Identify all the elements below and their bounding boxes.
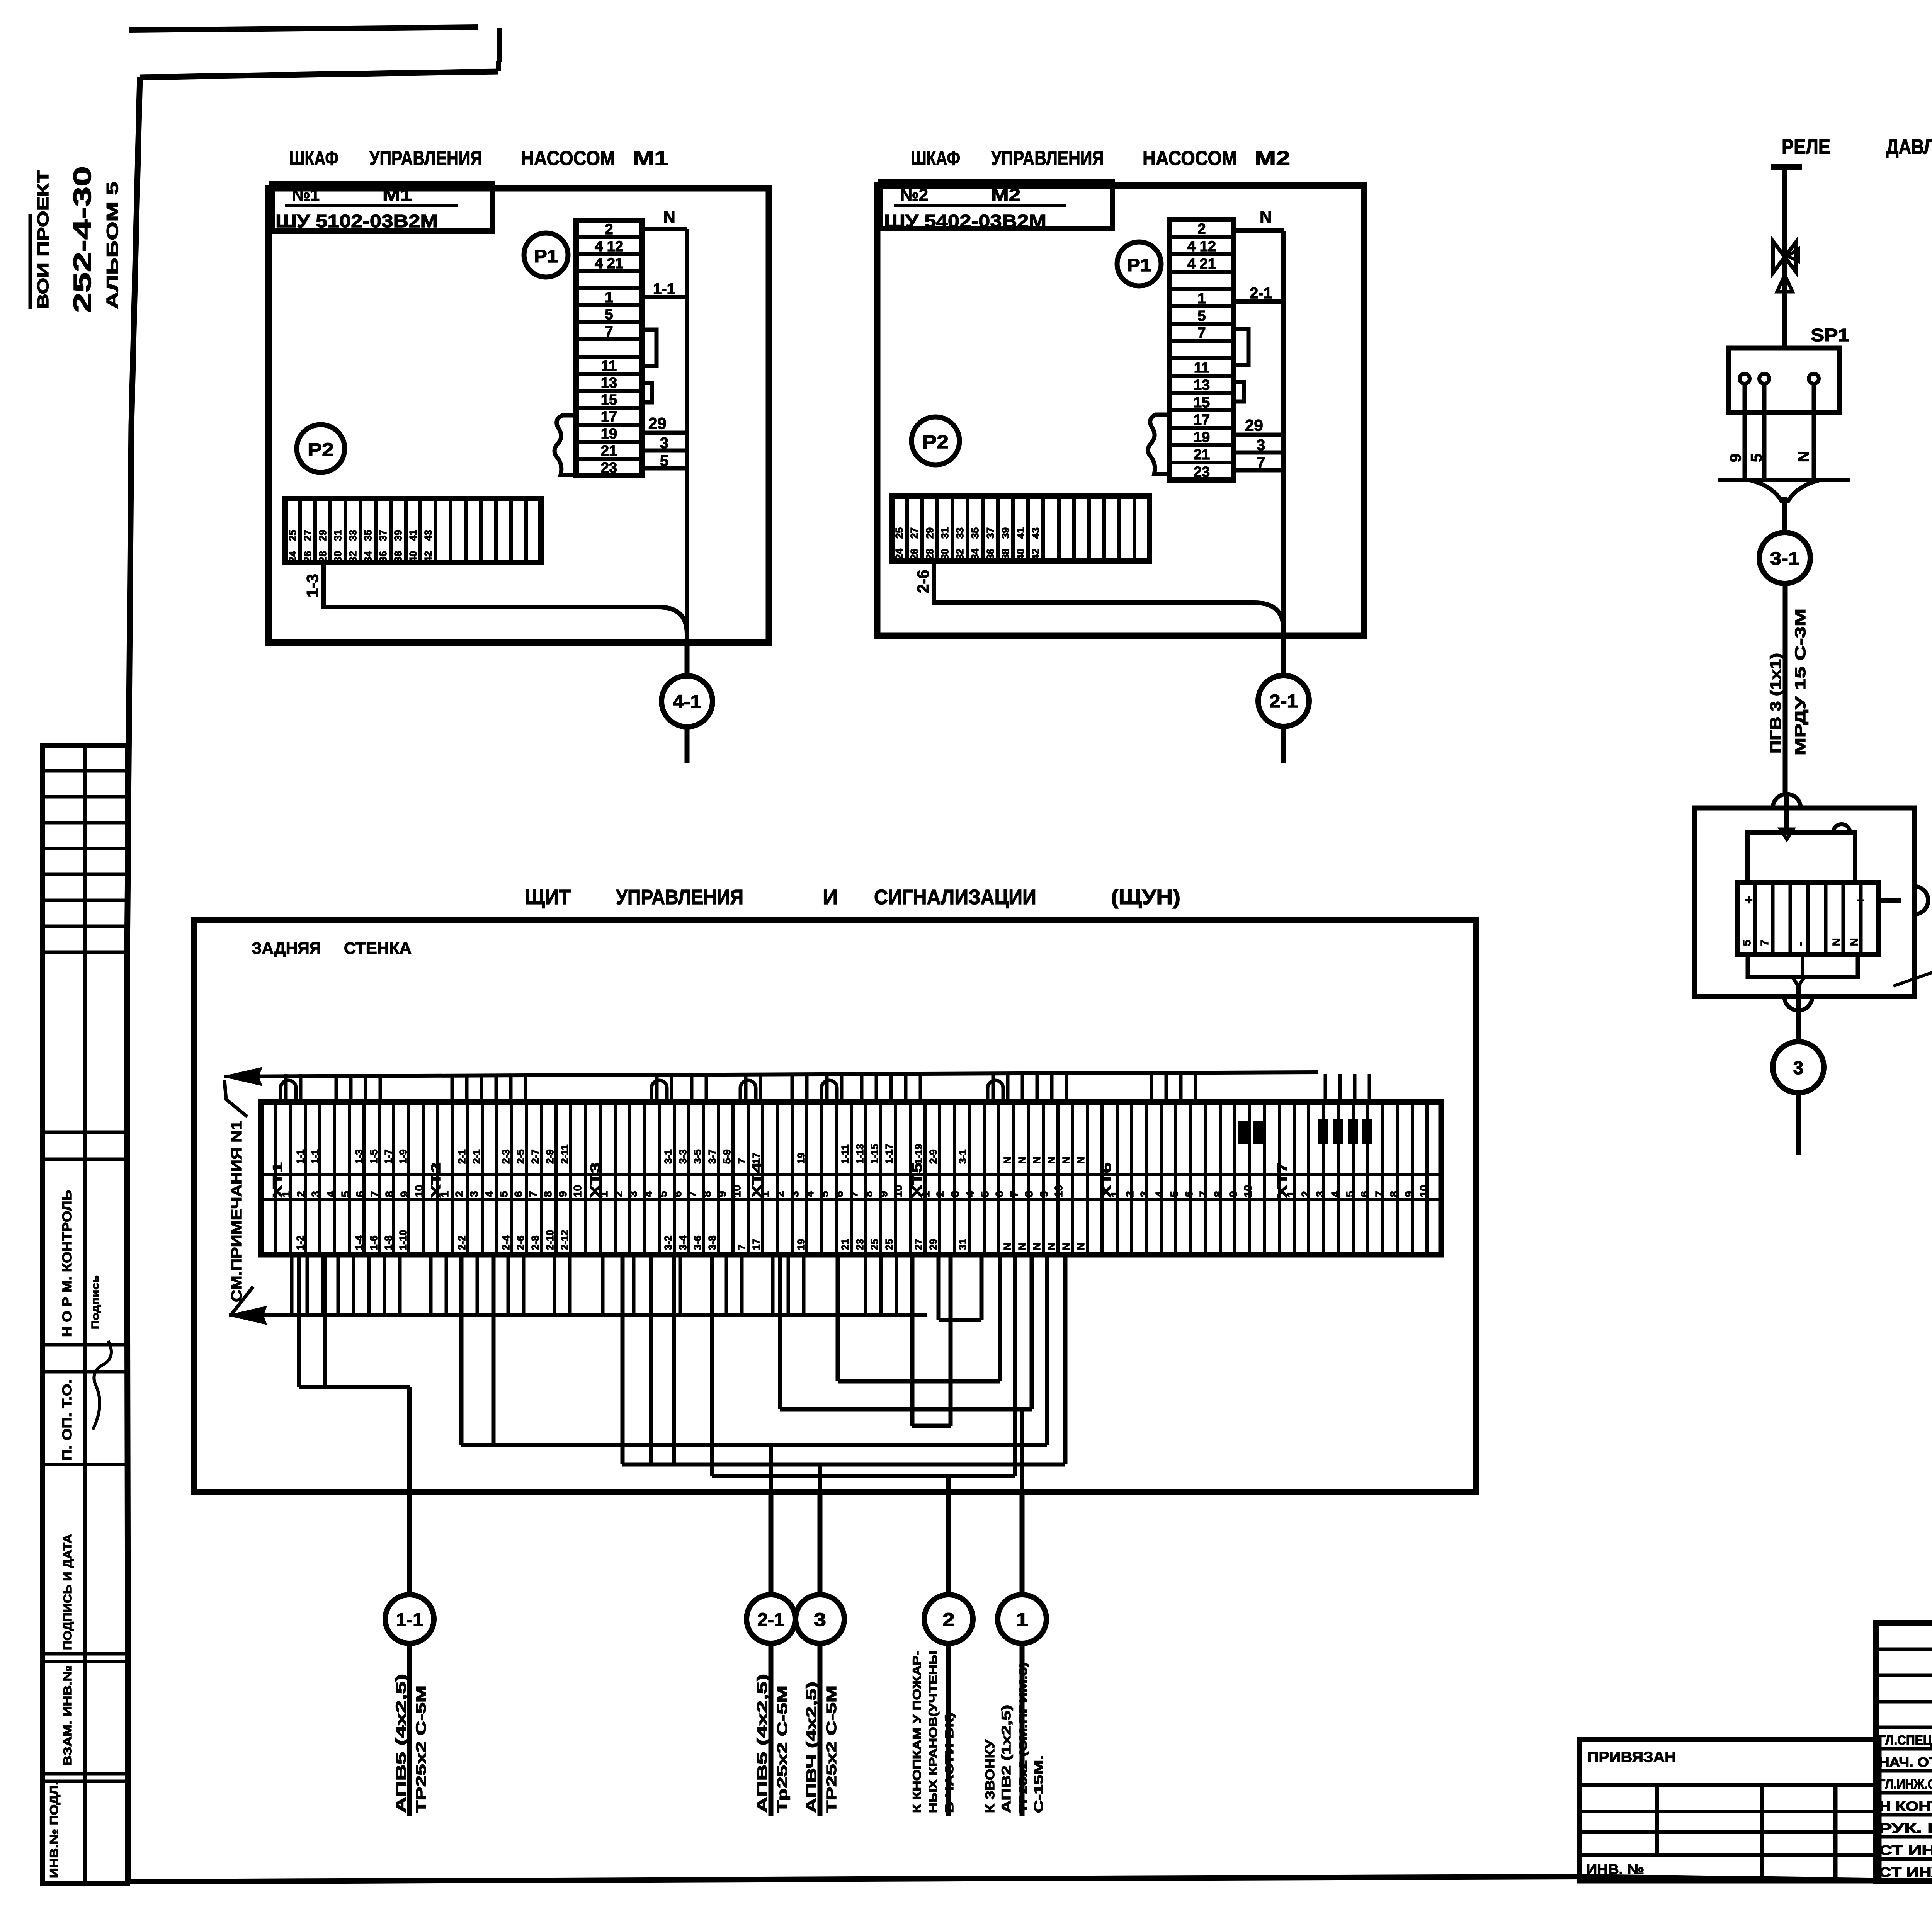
svg-text:УПРАВЛЕНИЯ: УПРАВЛЕНИЯ	[369, 147, 482, 170]
terminal strip black cells	[1238, 1119, 1372, 1144]
svg-text:36: 36	[985, 549, 996, 560]
relay P1 of М1	[524, 233, 568, 277]
svg-text:31: 31	[957, 1239, 968, 1250]
svg-text:1-17: 1-17	[883, 1144, 895, 1164]
svg-text:252-4-30: 252-4-30	[68, 166, 96, 313]
junction box inner assembly	[1737, 795, 1901, 1042]
svg-text:2: 2	[934, 1191, 946, 1197]
svg-text:SP1: SP1	[1811, 325, 1849, 345]
cable labels 2	[911, 1651, 956, 1813]
svg-text:9: 9	[878, 1191, 889, 1197]
svg-text:3: 3	[1314, 1191, 1326, 1197]
title block names table	[1876, 1623, 1932, 1881]
svg-text:1: 1	[1109, 1191, 1121, 1197]
svg-text:5: 5	[1197, 308, 1206, 324]
wire N of М1	[642, 207, 687, 643]
svg-text:39: 39	[392, 530, 404, 541]
title pressure relay	[1782, 135, 1932, 158]
svg-text:К ЗВОНКУ: К ЗВОНКУ	[983, 1739, 997, 1813]
cabinet title М2	[911, 147, 1290, 170]
svg-text:10: 10	[1418, 1185, 1430, 1197]
svg-text:6: 6	[1359, 1191, 1371, 1197]
svg-text:32: 32	[347, 551, 359, 562]
cable circle 1-1	[385, 1492, 434, 1816]
wire bundle routing	[299, 1255, 1065, 1476]
panel terminal strip body	[261, 1102, 1441, 1255]
svg-text:3-5: 3-5	[692, 1149, 703, 1164]
svg-text:2-1: 2-1	[1250, 285, 1272, 302]
svg-text:М2: М2	[1255, 147, 1290, 170]
svg-text:№2: №2	[900, 185, 928, 204]
svg-text:8: 8	[383, 1191, 395, 1197]
junction box label	[1893, 925, 1932, 992]
svg-text:1-1: 1-1	[309, 1149, 321, 1164]
svg-text:1-6: 1-6	[368, 1235, 379, 1250]
svg-text:17: 17	[1194, 412, 1210, 428]
svg-text:2-8: 2-8	[529, 1235, 541, 1250]
svg-text:N: N	[1031, 1243, 1043, 1250]
svg-text:7: 7	[527, 1191, 539, 1197]
wire 1-3 of М1	[303, 562, 687, 634]
stamp table	[43, 745, 128, 1883]
svg-text:НЫХ КРАНОВ(УЧТЕНЫ: НЫХ КРАНОВ(УЧТЕНЫ	[927, 1651, 940, 1813]
cable circle 4-1	[662, 643, 713, 763]
svg-text:4 21: 4 21	[1187, 256, 1216, 272]
svg-text:28: 28	[317, 551, 328, 562]
svg-text:34: 34	[969, 549, 981, 560]
svg-text:3-3: 3-3	[677, 1149, 689, 1164]
wires below strip	[292, 1255, 896, 1315]
svg-text:1-10: 1-10	[397, 1230, 409, 1250]
svg-text:1-1: 1-1	[653, 281, 675, 298]
svg-text:Р2: Р2	[308, 440, 334, 460]
svg-text:8: 8	[862, 1191, 874, 1197]
svg-text:К КНОПКАМ У ПОЖАР-: К КНОПКАМ У ПОЖАР-	[911, 1651, 923, 1813]
svg-text:Тр25х2 С-5М: Тр25х2 С-5М	[774, 1685, 790, 1813]
svg-text:8: 8	[1023, 1191, 1035, 1197]
svg-text:25: 25	[287, 530, 298, 541]
svg-text:4 12: 4 12	[595, 238, 623, 255]
svg-text:ДАВЛЕНИЯ: ДАВЛЕНИЯ	[1886, 135, 1932, 158]
pipe stub SP1	[1771, 167, 1802, 348]
svg-text:9: 9	[716, 1191, 728, 1197]
svg-text:ГЛ.СПЕЦ.ТО: ГЛ.СПЕЦ.ТО	[1879, 1733, 1932, 1748]
svg-text:N: N	[1060, 1243, 1072, 1250]
frame left border	[127, 77, 140, 1881]
svg-text:13: 13	[1194, 377, 1210, 393]
svg-text:УПРАВЛЕНИЯ: УПРАВЛЕНИЯ	[616, 886, 743, 909]
tap wires of М2	[1234, 416, 1284, 471]
title block pривязан table	[1579, 1740, 1879, 1881]
svg-text:3: 3	[949, 1191, 961, 1197]
svg-text:5: 5	[818, 1191, 830, 1197]
svg-text:1-5: 1-5	[368, 1149, 379, 1164]
svg-text:11: 11	[1194, 360, 1209, 376]
svg-text:32: 32	[954, 549, 966, 560]
bottom terminal strip of М2	[892, 496, 1150, 561]
svg-text:3-6: 3-6	[692, 1235, 703, 1250]
svg-text:АПВЧ (4х2,5): АПВЧ (4х2,5)	[803, 1682, 819, 1813]
svg-text:3-1: 3-1	[662, 1149, 674, 1164]
svg-text:37: 37	[377, 530, 389, 541]
svg-text:13: 13	[601, 375, 617, 391]
svg-text:6: 6	[833, 1191, 845, 1197]
cable circle 2	[924, 1492, 973, 1816]
svg-text:3: 3	[468, 1191, 480, 1197]
svg-text:17: 17	[750, 1239, 762, 1250]
svg-text:1-19: 1-19	[913, 1144, 924, 1164]
cable labels 3	[803, 1682, 839, 1813]
svg-text:СИГНАЛИЗАЦИИ: СИГНАЛИЗАЦИИ	[874, 886, 1036, 909]
svg-text:4-1: 4-1	[673, 692, 701, 712]
svg-text:23: 23	[854, 1239, 866, 1250]
terminal strip small labels lower	[294, 1230, 1087, 1250]
svg-text:7: 7	[1008, 1191, 1020, 1197]
svg-text:10: 10	[892, 1185, 904, 1197]
tap wires of М1	[642, 414, 687, 469]
svg-text:15: 15	[601, 392, 617, 408]
svg-text:5-9: 5-9	[721, 1149, 733, 1164]
svg-text:36: 36	[377, 551, 389, 562]
svg-text:М1: М1	[633, 147, 668, 170]
svg-text:2-3: 2-3	[500, 1149, 512, 1164]
cable labels 1	[983, 1662, 1046, 1813]
svg-text:19: 19	[601, 426, 617, 442]
cable labels 1-1	[393, 1674, 429, 1813]
cabinet М1 box	[269, 188, 769, 643]
svg-text:ЩИТ: ЩИТ	[525, 886, 571, 909]
svg-text:5: 5	[498, 1191, 510, 1197]
svg-text:УПРАВЛЕНИЯ: УПРАВЛЕНИЯ	[991, 147, 1104, 170]
svg-text:1-4: 1-4	[353, 1235, 365, 1250]
svg-text:1: 1	[920, 1191, 932, 1197]
svg-text:1: 1	[605, 289, 613, 306]
svg-text:3-2: 3-2	[662, 1235, 674, 1250]
svg-text:38: 38	[392, 551, 404, 562]
svg-text:ШУ 5402-03В2М: ШУ 5402-03В2М	[884, 211, 1046, 231]
svg-text:N: N	[1016, 1156, 1028, 1164]
svg-text:29: 29	[648, 414, 667, 432]
upper bus line with arrow	[224, 1068, 1318, 1085]
svg-text:ПГВ 3 (1х1): ПГВ 3 (1х1)	[1768, 653, 1784, 753]
svg-text:4: 4	[325, 1191, 337, 1197]
svg-text:1: 1	[598, 1191, 610, 1197]
svg-text:2-1: 2-1	[456, 1149, 468, 1164]
svg-text:9: 9	[398, 1191, 410, 1197]
svg-text:5: 5	[339, 1191, 351, 1197]
svg-text:П. ОП. Т.О.: П. ОП. Т.О.	[60, 1379, 75, 1461]
svg-text:7: 7	[736, 1245, 747, 1250]
svg-text:АПВ5 (4х2,5): АПВ5 (4х2,5)	[393, 1674, 409, 1813]
svg-text:30: 30	[939, 549, 951, 560]
svg-text:3: 3	[789, 1191, 801, 1197]
svg-text:29: 29	[924, 527, 935, 539]
svg-text:4: 4	[1329, 1191, 1341, 1197]
svg-text:№1: №1	[292, 185, 320, 204]
svg-text:8: 8	[1388, 1191, 1400, 1197]
terminal strip left hook of М1	[554, 415, 576, 475]
svg-text:2-9: 2-9	[927, 1149, 939, 1164]
svg-text:1: 1	[439, 1191, 451, 1197]
svg-text:НАЧ. ОТД.: НАЧ. ОТД.	[1879, 1755, 1932, 1770]
cable labels 2-1	[754, 1674, 790, 1813]
svg-text:1-3: 1-3	[303, 574, 321, 597]
svg-text:N: N	[1046, 1243, 1057, 1250]
svg-text:34: 34	[362, 551, 374, 562]
svg-text:2-6: 2-6	[914, 570, 932, 593]
svg-text:27: 27	[302, 530, 313, 541]
svg-text:С-15М.: С-15М.	[1032, 1755, 1046, 1813]
svg-text:3: 3	[627, 1191, 639, 1197]
terminal strip right tabs of М2	[1234, 329, 1248, 401]
svg-text:2-11: 2-11	[559, 1144, 570, 1164]
svg-text:4: 4	[483, 1191, 495, 1197]
svg-text:4 12: 4 12	[1187, 238, 1216, 255]
svg-text:23: 23	[601, 460, 617, 476]
svg-text:4 21: 4 21	[595, 255, 623, 272]
svg-text:11: 11	[601, 358, 617, 374]
svg-text:2-6: 2-6	[515, 1235, 526, 1250]
relay P1 of М2	[1117, 242, 1161, 286]
svg-text:8: 8	[542, 1191, 554, 1197]
svg-text:N: N	[1075, 1156, 1087, 1164]
svg-text:ИНВ.№ ПОДЛ.: ИНВ.№ ПОДЛ.	[48, 1781, 61, 1878]
svg-text:N: N	[1046, 1156, 1057, 1164]
svg-text:ТР25х2 С-5М: ТР25х2 С-5М	[413, 1685, 429, 1813]
svg-text:Н КОНТР: Н КОНТР	[1879, 1799, 1932, 1814]
svg-text:39: 39	[1000, 527, 1011, 539]
svg-text:2: 2	[1124, 1191, 1136, 1197]
terminal strip left hook of М2	[1148, 415, 1170, 474]
svg-text:3-1: 3-1	[957, 1149, 968, 1164]
wire N of М2	[1234, 207, 1284, 636]
svg-text:28: 28	[924, 549, 935, 560]
svg-text:4: 4	[804, 1191, 816, 1197]
svg-text:ВОИ ПРОЕКТ: ВОИ ПРОЕКТ	[35, 170, 52, 309]
svg-text:ВЗАМ. ИНВ.№: ВЗАМ. ИНВ.№	[61, 1665, 74, 1766]
svg-text:СТ ИНЖ: СТ ИНЖ	[1879, 1843, 1932, 1858]
frame bottom border	[128, 1877, 1932, 1886]
svg-text:5: 5	[1168, 1191, 1180, 1197]
svg-text:7: 7	[1759, 940, 1770, 946]
svg-text:15: 15	[1194, 395, 1210, 411]
svg-text:2-4: 2-4	[500, 1235, 512, 1250]
svg-text:N: N	[1260, 207, 1272, 226]
svg-text:25: 25	[883, 1239, 895, 1250]
junction box SK	[1695, 794, 1928, 1010]
svg-text:(ЩУН): (ЩУН)	[1111, 886, 1180, 909]
svg-text:5: 5	[1741, 940, 1753, 946]
svg-text:6: 6	[1183, 1191, 1195, 1197]
svg-text:3-4: 3-4	[677, 1235, 689, 1250]
svg-text:19: 19	[795, 1153, 807, 1164]
drop wires inside panel	[410, 1387, 1022, 1492]
svg-text:НАСОСОМ: НАСОСОМ	[521, 147, 615, 170]
svg-text:26: 26	[908, 549, 920, 560]
stamp table labels	[48, 1190, 111, 1878]
terminal group labels XT1-XT7	[270, 1162, 1290, 1198]
svg-text:N: N	[1060, 1156, 1072, 1164]
svg-text:1-8: 1-8	[383, 1235, 394, 1250]
svg-text:7: 7	[848, 1191, 860, 1197]
svg-text:31: 31	[332, 530, 344, 541]
svg-text:1-3: 1-3	[353, 1149, 365, 1164]
svg-text:1: 1	[1285, 1191, 1297, 1197]
svg-text:ШКАФ: ШКАФ	[289, 147, 338, 170]
svg-text:7: 7	[1197, 1191, 1209, 1197]
svg-text:2: 2	[774, 1191, 786, 1197]
svg-text:+: +	[1857, 894, 1864, 907]
svg-text:Р2: Р2	[922, 432, 949, 452]
terminal numbers	[280, 1185, 1430, 1197]
svg-text:МРДУ 15 С-3М: МРДУ 15 С-3М	[1793, 609, 1809, 755]
svg-text:6: 6	[672, 1191, 684, 1197]
svg-text:Н О Р М. КОНТРОЛЬ: Н О Р М. КОНТРОЛЬ	[60, 1190, 75, 1337]
svg-text:24: 24	[287, 551, 298, 562]
svg-text:40: 40	[1015, 549, 1026, 560]
svg-text:N: N	[1002, 1243, 1013, 1250]
wire 2-6 of М2	[914, 561, 1284, 630]
svg-text:23: 23	[1194, 464, 1210, 480]
cabinet М1 label box	[272, 184, 493, 231]
svg-text:5: 5	[979, 1191, 991, 1197]
svg-text:1-13: 1-13	[854, 1144, 866, 1164]
svg-text:В ЧАСТИ ВК): В ЧАСТИ ВК)	[943, 1713, 956, 1813]
svg-text:ПОДПИСЬ И ДАТА: ПОДПИСЬ И ДАТА	[61, 1534, 74, 1650]
svg-text:3-7: 3-7	[706, 1149, 718, 1164]
svg-text:РУК. ГР: РУК. ГР	[1879, 1821, 1932, 1836]
svg-text:5: 5	[1344, 1191, 1356, 1197]
svg-text:35: 35	[969, 527, 981, 539]
svg-text:N: N	[1795, 451, 1812, 462]
svg-text:3: 3	[310, 1191, 321, 1197]
svg-text:Р1: Р1	[534, 246, 558, 266]
svg-text:43: 43	[1030, 527, 1041, 539]
svg-text:2: 2	[1299, 1191, 1311, 1197]
svg-text:СМ.ПРИМЕЧАНИЯ N1: СМ.ПРИМЕЧАНИЯ N1	[229, 1121, 245, 1302]
terminal strip small labels upper	[294, 1144, 1087, 1164]
svg-text:7: 7	[369, 1191, 381, 1197]
svg-text:2-7: 2-7	[529, 1149, 541, 1164]
svg-text:7: 7	[1197, 325, 1206, 341]
cable circle 1	[998, 1492, 1046, 1816]
svg-text:17: 17	[601, 409, 617, 425]
svg-text:10: 10	[1053, 1185, 1065, 1197]
svg-text:М2: М2	[991, 185, 1020, 204]
svg-text:33: 33	[347, 530, 359, 541]
svg-text:33: 33	[954, 527, 966, 539]
svg-text:10: 10	[731, 1185, 743, 1197]
svg-text:27: 27	[908, 527, 920, 539]
svg-text:1: 1	[1016, 1610, 1028, 1630]
svg-text:31: 31	[939, 527, 951, 539]
svg-text:СТЕНКА: СТЕНКА	[344, 939, 412, 957]
svg-text:ПРИВЯЗАН: ПРИВЯЗАН	[1587, 1749, 1676, 1765]
svg-text:42: 42	[1030, 549, 1041, 560]
svg-text:5: 5	[605, 306, 613, 323]
svg-text:25: 25	[893, 527, 905, 539]
terminal strip of М1	[576, 220, 642, 476]
svg-text:35: 35	[362, 530, 374, 541]
svg-text:2: 2	[612, 1191, 624, 1197]
bottom terminal strip of М1	[285, 498, 541, 562]
svg-text:М1: М1	[383, 185, 412, 204]
svg-text:ГЛ.ИНЖ.ОТД: ГЛ.ИНЖ.ОТД	[1879, 1777, 1932, 1792]
terminal strip right tabs of М1	[642, 330, 656, 402]
svg-text:29: 29	[927, 1239, 939, 1250]
svg-text:2-9: 2-9	[544, 1149, 556, 1164]
svg-text:ТР25х2 (СМ.ПРИМ.3): ТР25х2 (СМ.ПРИМ.3)	[1017, 1662, 1029, 1813]
cable circle 3	[796, 1492, 844, 1816]
svg-text:Подпись: Подпись	[89, 1275, 101, 1329]
valve SP1	[1773, 241, 1799, 292]
cable circle 2-1	[1258, 636, 1309, 763]
margin stamp text	[30, 166, 121, 313]
svg-text:И: И	[823, 886, 838, 909]
cabinet М2 label box	[881, 181, 1112, 231]
svg-text:N: N	[663, 207, 675, 226]
svg-text:9: 9	[1227, 1191, 1239, 1197]
pressure switch SP1	[1727, 325, 1849, 480]
svg-text:2-12: 2-12	[559, 1230, 570, 1250]
svg-text:3-1: 3-1	[1770, 548, 1799, 568]
svg-text:9: 9	[1038, 1191, 1050, 1197]
svg-text:10: 10	[571, 1185, 583, 1197]
svg-text:2: 2	[605, 221, 613, 238]
svg-text:1-2: 1-2	[294, 1235, 306, 1250]
svg-text:40: 40	[407, 551, 419, 562]
svg-text:2-10: 2-10	[544, 1230, 556, 1250]
svg-text:АПВ2 (1х2,5): АПВ2 (1х2,5)	[999, 1705, 1013, 1813]
svg-text:6: 6	[993, 1191, 1005, 1197]
svg-text:1-1: 1-1	[396, 1610, 423, 1630]
svg-text:2-1: 2-1	[1269, 691, 1298, 712]
svg-text:2: 2	[453, 1191, 465, 1197]
frame tick	[497, 28, 502, 62]
label rear wall	[252, 939, 412, 957]
svg-text:8: 8	[1212, 1191, 1224, 1197]
svg-text:2-1: 2-1	[757, 1610, 784, 1630]
note reference label	[224, 1080, 247, 1302]
svg-text:6: 6	[512, 1191, 524, 1197]
svg-text:2-5: 2-5	[515, 1149, 526, 1164]
svg-text:43: 43	[422, 530, 434, 541]
svg-text:7: 7	[736, 1158, 747, 1164]
svg-text:N: N	[1031, 1156, 1043, 1164]
svg-text:38: 38	[1000, 549, 1011, 560]
svg-text:1-1: 1-1	[294, 1149, 306, 1164]
svg-text:4: 4	[642, 1191, 654, 1197]
svg-text:2-1: 2-1	[471, 1149, 482, 1164]
svg-text:10: 10	[413, 1185, 425, 1197]
svg-text:3: 3	[1793, 1058, 1804, 1078]
drawing frame top-left line	[129, 27, 478, 30]
svg-text:30: 30	[332, 551, 344, 562]
svg-text:+: +	[1745, 893, 1753, 907]
svg-text:41: 41	[1015, 527, 1026, 539]
svg-text:21: 21	[601, 443, 617, 459]
svg-text:24: 24	[893, 549, 905, 560]
svg-text:ТР25х2 С-5М: ТР25х2 С-5М	[823, 1685, 839, 1813]
svg-text:СТ ИНЖ.: СТ ИНЖ.	[1879, 1865, 1932, 1880]
svg-text:7: 7	[686, 1191, 698, 1197]
svg-text:19: 19	[795, 1239, 807, 1250]
svg-text:7: 7	[605, 324, 613, 340]
svg-text:НАСОСОМ: НАСОСОМ	[1143, 147, 1237, 170]
svg-text:9: 9	[557, 1191, 569, 1197]
svg-text:26: 26	[302, 551, 313, 562]
cable circle 3-1	[1759, 532, 1810, 583]
